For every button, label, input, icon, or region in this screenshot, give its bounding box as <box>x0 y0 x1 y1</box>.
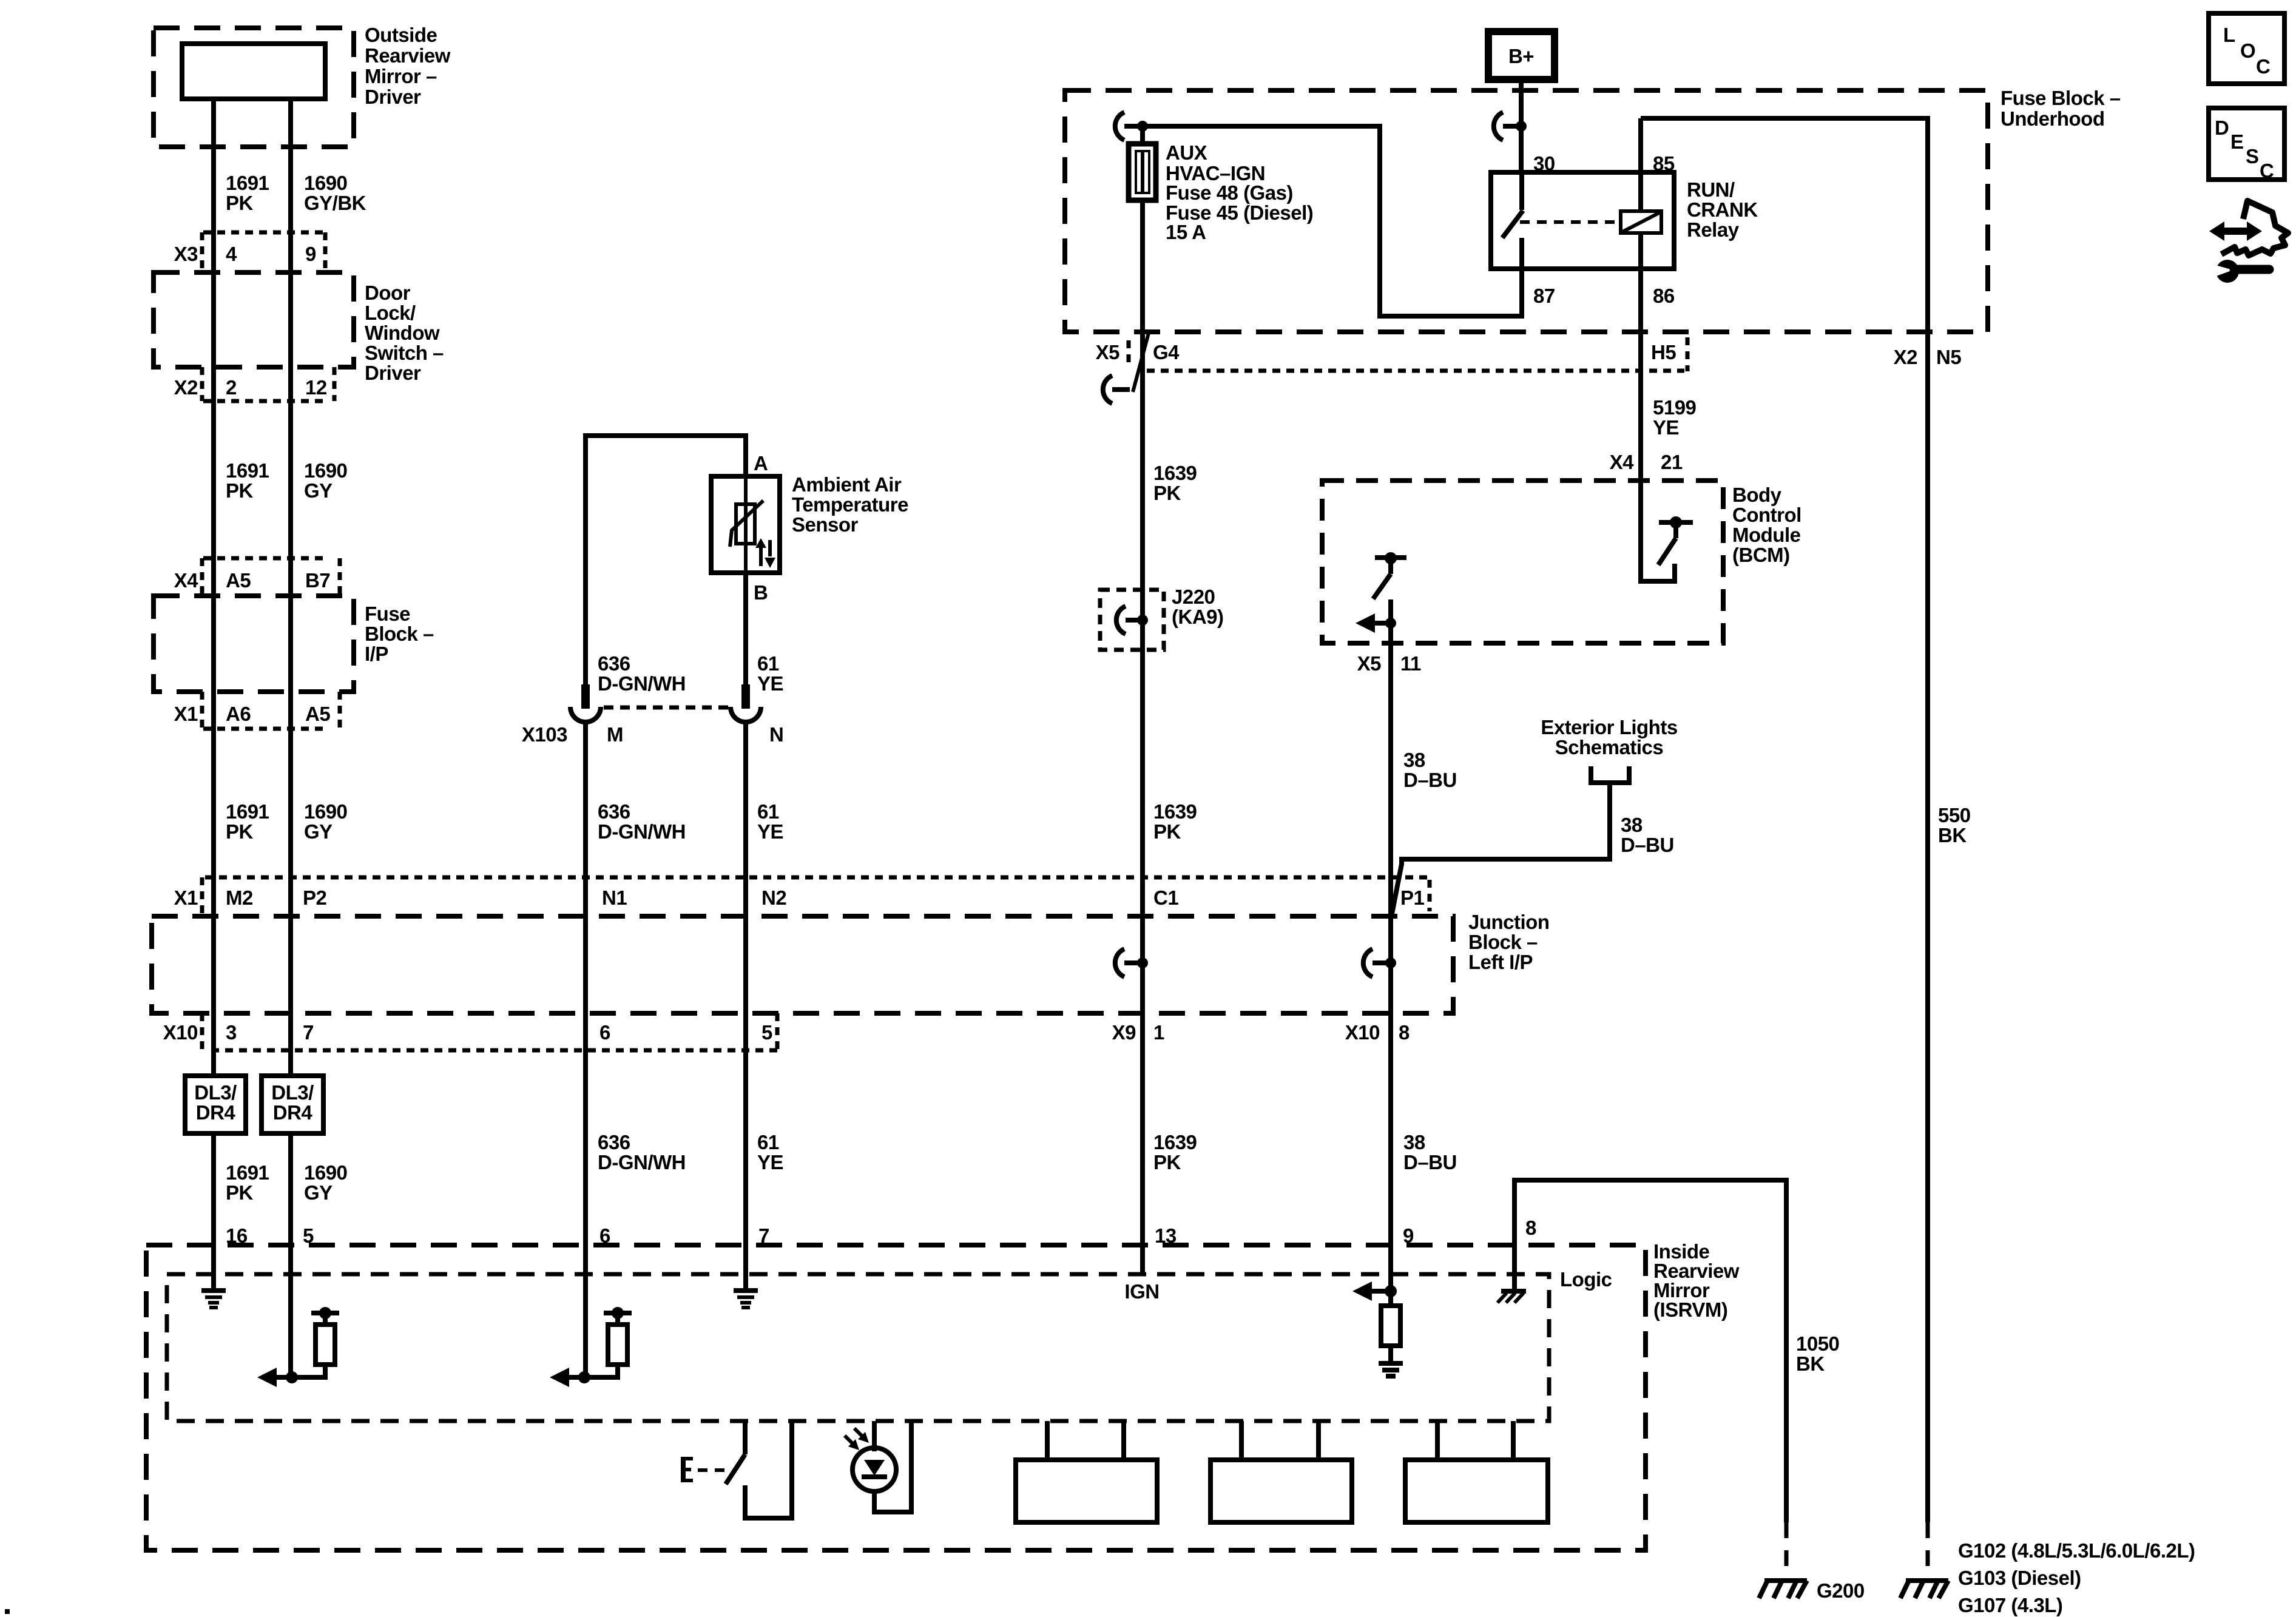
connector X3 row (pins 4, 9) <box>174 232 325 272</box>
splice clip on 1639 wire in junction block <box>1115 949 1148 977</box>
svg-text:X2: X2 <box>174 376 198 399</box>
wire label 550 BK <box>1938 804 1971 846</box>
svg-text:BK: BK <box>1938 824 1967 846</box>
photocell <box>845 1421 911 1512</box>
X103 tie line <box>604 706 730 710</box>
label: AUX HVAC-IGN fuse <box>1166 141 1313 243</box>
wire label 636 D-GN/WH <box>598 800 686 843</box>
svg-text:5199: 5199 <box>1653 396 1697 419</box>
svg-text:86: 86 <box>1653 285 1675 307</box>
svg-text:X4: X4 <box>1610 451 1635 473</box>
svg-text:30: 30 <box>1533 152 1555 175</box>
svg-text:DL3/: DL3/ <box>271 1081 314 1104</box>
svg-text:X10: X10 <box>163 1021 198 1044</box>
svg-text:G4: G4 <box>1153 341 1180 363</box>
svg-text:CRANK: CRANK <box>1687 198 1758 221</box>
svg-text:Sensor: Sensor <box>792 513 859 536</box>
DESC reference box <box>2209 108 2284 182</box>
svg-text:Rearview: Rearview <box>365 44 451 67</box>
fuse block - underhood (dashed box) <box>1065 90 1988 332</box>
label: Exterior Lights Schematics <box>1541 716 1677 758</box>
svg-text:Temperature: Temperature <box>792 493 908 516</box>
svg-text:X3: X3 <box>174 243 198 265</box>
svg-text:21: 21 <box>1661 451 1683 473</box>
mirror element box 2 <box>1210 1421 1352 1522</box>
svg-text:4: 4 <box>226 243 237 265</box>
wire label 636 D-GN/WH <box>598 1131 686 1173</box>
svg-text:38: 38 <box>1403 1131 1425 1153</box>
svg-text:J220: J220 <box>1172 586 1215 608</box>
svg-text:Logic: Logic <box>1560 1268 1612 1291</box>
svg-text:1690: 1690 <box>304 800 347 823</box>
relay coil <box>1621 211 1661 233</box>
connector row X1: M2 P2 N1 N2 C1 P1 (junction block top) <box>174 877 1430 916</box>
svg-text:Module: Module <box>1732 524 1801 546</box>
svg-text:X2: X2 <box>1894 346 1918 368</box>
wire label 61 YE <box>757 1131 783 1173</box>
wire label 1691 PK <box>226 800 269 843</box>
connector X2 row (pins 2, 12) <box>174 367 334 401</box>
svg-text:N: N <box>769 723 783 746</box>
ground labels G102 G103 G107 <box>1958 1539 2195 1616</box>
wire B+ to relay 30 <box>1519 79 1524 172</box>
svg-text:G200: G200 <box>1817 1579 1865 1602</box>
svg-text:GY: GY <box>304 820 333 843</box>
svg-text:N2: N2 <box>761 886 786 909</box>
wire label 61 YE <box>757 800 783 843</box>
svg-text:7: 7 <box>303 1021 314 1044</box>
svg-text:IGN: IGN <box>1124 1280 1159 1303</box>
label: RUN/CRANK Relay <box>1687 178 1758 241</box>
svg-text:Mirror –: Mirror – <box>365 65 437 87</box>
B+ power feed box <box>1488 32 1555 79</box>
svg-text:Schematics: Schematics <box>1555 736 1663 758</box>
svg-text:Door: Door <box>365 282 411 304</box>
svg-text:Relay: Relay <box>1687 218 1740 241</box>
svg-text:12: 12 <box>305 376 327 399</box>
svg-text:(BCM): (BCM) <box>1732 544 1790 566</box>
wire 85 to X2 N5 and 550 BK down <box>1641 118 1928 1522</box>
svg-text:D-GN/WH: D-GN/WH <box>598 1151 686 1173</box>
svg-text:D-GN/WH: D-GN/WH <box>598 820 686 843</box>
AUX HVAC-IGN fuse <box>1129 126 1156 200</box>
svg-text:X5: X5 <box>1096 341 1120 363</box>
body control module BCM (dashed box) <box>1322 481 1723 643</box>
label: Junction Block - Left I/P <box>1468 911 1550 973</box>
svg-text:Fuse: Fuse <box>365 603 410 625</box>
svg-text:(KA9): (KA9) <box>1172 606 1224 628</box>
off-page reference symbol <box>1589 766 1632 783</box>
svg-text:D-GN/WH: D-GN/WH <box>598 672 686 695</box>
connector X1 row (pins A6, A5) <box>174 692 340 729</box>
svg-text:C: C <box>2260 160 2274 182</box>
ground inside ISRVM (pin 16 wire) <box>201 1291 226 1308</box>
label: Fuse Block - I/P <box>365 603 434 665</box>
sensor loop wire 636/61 top <box>586 436 746 705</box>
svg-text:9: 9 <box>1403 1224 1414 1247</box>
svg-text:N5: N5 <box>1936 346 1961 368</box>
svg-text:2: 2 <box>226 376 237 399</box>
svg-text:38: 38 <box>1621 814 1643 836</box>
svg-text:1050: 1050 <box>1796 1332 1839 1355</box>
svg-text:I/P: I/P <box>365 643 388 665</box>
svg-text:O: O <box>2240 39 2255 62</box>
wire 38 D-BU from exterior lights <box>1392 783 1610 914</box>
svg-text:61: 61 <box>757 652 779 675</box>
svg-text:1639: 1639 <box>1153 1131 1197 1153</box>
svg-text:5: 5 <box>761 1021 772 1044</box>
svg-text:D–BU: D–BU <box>1403 1151 1457 1173</box>
svg-text:GY/BK: GY/BK <box>304 192 366 214</box>
svg-text:YE: YE <box>757 820 783 843</box>
svg-text:1639: 1639 <box>1153 462 1197 484</box>
svg-text:Window: Window <box>365 322 440 344</box>
svg-text:Control: Control <box>1732 504 1801 526</box>
svg-text:1690: 1690 <box>304 1161 347 1184</box>
svg-text:Left I/P: Left I/P <box>1468 951 1533 973</box>
wire 1690 GY below DL3 <box>288 1133 293 1377</box>
svg-text:YE: YE <box>757 672 783 695</box>
resistor network on pin 6 wire <box>550 1307 632 1387</box>
svg-text:DR4: DR4 <box>196 1101 236 1124</box>
svg-text:Block –: Block – <box>365 623 434 645</box>
svg-text:N1: N1 <box>602 886 627 909</box>
svg-text:1690: 1690 <box>304 459 347 482</box>
wire 1639 PK from fuse down <box>1140 200 1145 1274</box>
svg-text:550: 550 <box>1938 804 1971 826</box>
svg-text:3: 3 <box>226 1021 237 1044</box>
svg-text:636: 636 <box>598 1131 630 1153</box>
svg-text:RUN/: RUN/ <box>1687 178 1735 201</box>
wire label 61 YE <box>757 652 783 695</box>
splice clip at AUX fuse feed <box>1115 112 1148 140</box>
svg-text:Fuse 48 (Gas): Fuse 48 (Gas) <box>1166 181 1293 204</box>
svg-text:Block –: Block – <box>1468 931 1538 953</box>
svg-text:C1: C1 <box>1153 886 1178 909</box>
svg-text:B7: B7 <box>305 569 330 592</box>
svg-text:1691: 1691 <box>226 172 269 194</box>
svg-text:Lock/: Lock/ <box>365 302 416 324</box>
wire 38 D-BU from BCM down to ISRVM pin 9 <box>1388 599 1393 1291</box>
wire through sensor <box>744 476 748 573</box>
svg-text:13: 13 <box>1155 1224 1177 1247</box>
svg-text:DR4: DR4 <box>273 1101 313 1124</box>
X103 labels <box>522 723 783 746</box>
ground G102/G103/G107 <box>1900 1581 1948 1598</box>
svg-text:PK: PK <box>1153 820 1181 843</box>
wire relay 85 up <box>1638 118 1643 211</box>
svg-text:Driver: Driver <box>365 362 421 384</box>
svg-text:PK: PK <box>1153 482 1181 504</box>
svg-text:PK: PK <box>226 192 254 214</box>
svg-text:Body: Body <box>1732 484 1782 506</box>
svg-text:A6: A6 <box>226 703 251 725</box>
wire label 1639 PK <box>1153 462 1197 504</box>
wire label 1690 GY <box>304 800 347 843</box>
ambient air temperature sensor box <box>711 476 780 573</box>
svg-text:Outside: Outside <box>365 24 437 46</box>
svg-text:11: 11 <box>1400 652 1421 675</box>
svg-text:PK: PK <box>226 1181 254 1204</box>
up/down arrows in sensor <box>755 538 775 568</box>
svg-text:G103 (Diesel): G103 (Diesel) <box>1958 1567 2081 1589</box>
svg-text:8: 8 <box>1399 1021 1410 1044</box>
wire 1691 PK below DL3 <box>211 1133 216 1291</box>
svg-text:PK: PK <box>226 820 254 843</box>
wire 1691 PK (left column) <box>211 99 216 1076</box>
mirror element box 3 <box>1405 1421 1548 1522</box>
svg-text:D–BU: D–BU <box>1403 769 1457 791</box>
mirror dim switch (E) <box>681 1421 792 1518</box>
pass-through slash at G4 <box>1103 333 1149 403</box>
connector X103 terminal M <box>570 684 601 722</box>
svg-text:X1: X1 <box>174 886 198 909</box>
wire 636 below X103 <box>583 722 588 1377</box>
svg-text:8: 8 <box>1525 1217 1536 1239</box>
splice clip at B+ feed <box>1494 112 1527 140</box>
logic box (inner dashed) <box>167 1274 1549 1421</box>
pin 9 arrow and resistor to ground <box>1352 1281 1403 1376</box>
svg-text:Driver: Driver <box>365 86 421 108</box>
junction block - left I/P (dashed box) <box>152 916 1453 1013</box>
svg-text:636: 636 <box>598 800 630 823</box>
svg-text:Fuse Block –: Fuse Block – <box>2001 87 2121 109</box>
BCM switch (38 output) <box>1373 552 1406 599</box>
svg-text:87: 87 <box>1533 285 1555 307</box>
inside rearview mirror ISRVM (outer dashed box) <box>146 1245 1646 1550</box>
svg-text:85: 85 <box>1653 152 1675 175</box>
thermistor symbol <box>730 501 763 547</box>
svg-text:GY: GY <box>304 1181 333 1204</box>
chassis ground at pin 8 <box>1497 1291 1526 1303</box>
run/crank relay box <box>1491 172 1674 269</box>
wire label 1690 GY/BK <box>304 172 366 214</box>
svg-text:6: 6 <box>599 1021 610 1044</box>
relay switch contacts <box>1502 172 1523 269</box>
wire label 1690 GY <box>304 459 347 502</box>
fuse block - I/P (dashed box) <box>154 596 354 692</box>
svg-text:1691: 1691 <box>226 1161 269 1184</box>
BCM switch (5199 input) <box>1641 481 1693 581</box>
connector DL3/DR4 (left) <box>185 1076 246 1133</box>
label: Body Control Module (BCM) <box>1732 484 1801 566</box>
svg-text:S: S <box>2246 145 2259 167</box>
svg-text:1690: 1690 <box>304 172 347 194</box>
svg-text:D–BU: D–BU <box>1621 834 1674 856</box>
BCM output arrow <box>1356 613 1396 633</box>
connector DL3/DR4 (right) <box>262 1076 323 1133</box>
label: Ambient Air Temperature Sensor <box>792 473 908 536</box>
svg-text:Switch –: Switch – <box>365 342 444 364</box>
connector X103 terminal N <box>731 684 761 722</box>
svg-text:GY: GY <box>304 479 333 502</box>
svg-text:M2: M2 <box>226 886 253 909</box>
svg-text:A5: A5 <box>305 703 330 725</box>
wire label 38 D-BU (mid) <box>1403 749 1457 791</box>
svg-text:M: M <box>607 723 623 746</box>
svg-text:DL3/: DL3/ <box>194 1081 237 1104</box>
door lock/window switch - driver (dashed box) <box>154 272 354 367</box>
svg-text:9: 9 <box>305 243 316 265</box>
svg-text:E: E <box>2230 130 2244 153</box>
connector X10 row (pins 3 7 6 5 / X9 1 / X10 8) <box>163 1013 1410 1050</box>
svg-text:636: 636 <box>598 652 630 675</box>
wire 61 YE from sensor to X103 <box>743 573 748 705</box>
svg-text:C: C <box>2256 55 2270 78</box>
wire label 5199 YE <box>1653 396 1697 439</box>
svg-text:B+: B+ <box>1508 45 1534 67</box>
svg-text:(ISRVM): (ISRVM) <box>1653 1298 1727 1321</box>
LOC reference box <box>2209 13 2284 84</box>
dashed ground lead G102 <box>1926 1522 1930 1578</box>
connector X5 11 (BCM bottom) <box>1357 652 1421 675</box>
wire label 1691 PK <box>226 1161 269 1204</box>
ground G200 <box>1759 1579 1865 1602</box>
svg-text:B: B <box>754 581 768 604</box>
period dot bottom left <box>5 1609 10 1614</box>
svg-text:1691: 1691 <box>226 800 269 823</box>
svg-text:Underhood: Underhood <box>2001 107 2104 130</box>
label: Outside Rearview Mirror - Driver <box>365 24 451 108</box>
svg-text:Junction: Junction <box>1468 911 1550 933</box>
svg-text:PK: PK <box>226 479 254 502</box>
wire label 1691 PK <box>226 459 269 502</box>
svg-text:H5: H5 <box>1651 341 1676 363</box>
wire label 1690 GY <box>304 1161 347 1204</box>
svg-text:P2: P2 <box>303 886 327 909</box>
svg-text:X9: X9 <box>1112 1021 1136 1044</box>
connector row X5 G4 / H5 / X2 N5 <box>1096 337 1962 371</box>
mirror element box 1 <box>1016 1421 1157 1522</box>
svg-text:Ambient Air: Ambient Air <box>792 473 902 496</box>
svg-text:YE: YE <box>1653 416 1679 439</box>
svg-text:61: 61 <box>757 1131 779 1153</box>
svg-text:AUX: AUX <box>1166 141 1207 164</box>
wire label 38 D-BU (right) <box>1621 814 1674 856</box>
wire label 1639 PK (mid) <box>1153 800 1197 843</box>
splice clip on 38 wire in junction block <box>1363 949 1396 977</box>
svg-text:P1: P1 <box>1400 886 1425 909</box>
splice J220 (KA9) <box>1100 586 1224 650</box>
wire 61 below X103 <box>743 722 748 1291</box>
svg-text:15 A: 15 A <box>1166 221 1206 243</box>
svg-text:X10: X10 <box>1345 1021 1380 1044</box>
svg-text:A: A <box>754 452 768 474</box>
wire label 1691 PK <box>226 172 269 214</box>
wire from relay 87 to AUX fuse <box>1143 126 1522 316</box>
svg-text:1691: 1691 <box>226 459 269 482</box>
svg-text:X4: X4 <box>174 569 199 592</box>
relay actuating link (dashed) <box>1520 220 1619 224</box>
svg-text:X1: X1 <box>174 703 198 725</box>
label: Door Lock/Window Switch - Driver <box>365 282 444 384</box>
connector X4 row (pins A5, B7) <box>174 558 340 596</box>
connector X4 21 (BCM) <box>1610 451 1683 473</box>
dashed ground lead G200 <box>1784 1522 1789 1578</box>
svg-text:L: L <box>2223 24 2235 46</box>
service navigation icon (arrow + wrench) <box>2209 201 2288 283</box>
svg-text:61: 61 <box>757 800 779 823</box>
svg-text:38: 38 <box>1403 749 1425 771</box>
pin 8 wire and 1050 BK feed <box>1514 1180 1786 1522</box>
outside rearview mirror - driver (dashed box) <box>154 28 354 147</box>
wire relay 86 down to BCM <box>1638 233 1643 481</box>
resistor network on pin 5 wire <box>257 1307 339 1387</box>
ground inside ISRVM (pin 7 wire) <box>734 1291 758 1308</box>
wire label 1050 BK <box>1796 1332 1839 1375</box>
wire 1690 GY/BK (left column) <box>288 99 293 1076</box>
svg-text:YE: YE <box>757 1151 783 1173</box>
wire label 1639 PK (lower) <box>1153 1131 1197 1173</box>
svg-text:BK: BK <box>1796 1352 1825 1375</box>
svg-text:1: 1 <box>1153 1021 1164 1044</box>
mirror block <box>182 44 325 99</box>
svg-text:X103: X103 <box>522 723 567 746</box>
svg-text:D: D <box>2215 116 2229 139</box>
svg-text:A5: A5 <box>226 569 251 592</box>
relay labels 30 85 87 86 <box>1533 152 1675 307</box>
wire label 38 D-BU (lower) <box>1403 1131 1457 1173</box>
label: Fuse Block - Underhood <box>2001 87 2121 130</box>
svg-text:G107 (4.3L): G107 (4.3L) <box>1958 1594 2062 1616</box>
svg-text:1639: 1639 <box>1153 800 1197 823</box>
svg-text:PK: PK <box>1153 1151 1181 1173</box>
svg-text:G102 (4.8L/5.3L/6.0L/6.2L): G102 (4.8L/5.3L/6.0L/6.2L) <box>1958 1539 2195 1562</box>
svg-text:Exterior Lights: Exterior Lights <box>1541 716 1677 738</box>
label: Inside Rearview Mirror (ISRVM) <box>1653 1240 1740 1321</box>
wire label 636 D-GN/WH <box>598 652 686 695</box>
svg-text:X5: X5 <box>1357 652 1382 675</box>
